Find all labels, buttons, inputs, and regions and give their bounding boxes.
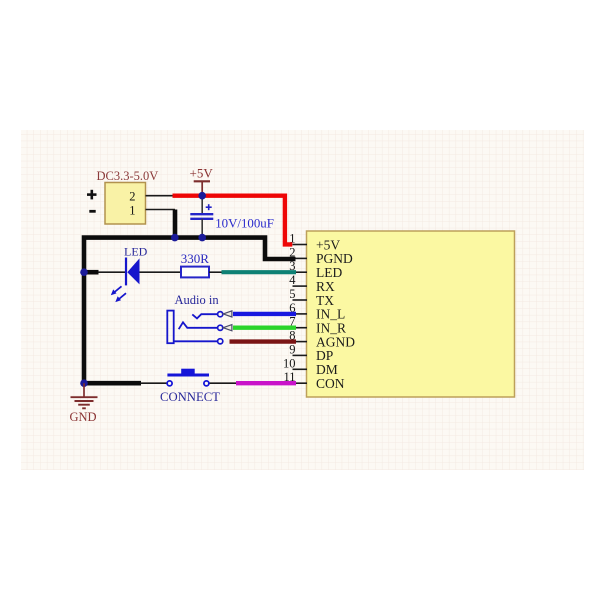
module U1 bbox=[307, 231, 515, 397]
svg-text:PGND: PGND bbox=[316, 251, 353, 266]
capacitor C1 bbox=[201, 196, 203, 215]
LED D1 bbox=[98, 271, 126, 273]
pushbutton S1 bbox=[141, 382, 168, 384]
svg-text:5: 5 bbox=[289, 287, 295, 301]
svg-text:IN_L: IN_L bbox=[316, 307, 345, 322]
svg-text:IN_R: IN_R bbox=[316, 321, 346, 336]
pin numbers 1-11 bbox=[283, 232, 296, 385]
wire LED net (teal) bbox=[222, 270, 297, 274]
pin stubs 1-11 bbox=[293, 245, 308, 384]
svg-text:CONNECT: CONNECT bbox=[160, 390, 220, 404]
svg-text:Audio in: Audio in bbox=[175, 293, 220, 307]
wire IN_L (blue) bbox=[233, 312, 296, 316]
svg-text:10V/100uF: 10V/100uF bbox=[215, 217, 274, 231]
wire DC pin1 bbox=[146, 209, 176, 211]
junction dots bbox=[80, 192, 206, 387]
wire LED branch stub bbox=[84, 270, 99, 275]
svg-text:GND: GND bbox=[70, 410, 97, 424]
svg-text:2: 2 bbox=[129, 190, 135, 204]
svg-text:DP: DP bbox=[316, 348, 333, 363]
plus sign bbox=[87, 190, 97, 200]
svg-text:10: 10 bbox=[283, 356, 296, 370]
svg-text:RX: RX bbox=[316, 279, 335, 294]
svg-text:LED: LED bbox=[316, 265, 342, 280]
svg-text:330R: 330R bbox=[181, 251, 210, 266]
sheet background bbox=[21, 130, 584, 470]
wire resistor to LED net bbox=[209, 271, 224, 273]
wire CON net (magenta) bbox=[236, 381, 296, 385]
wire DC pin1 drop bbox=[173, 210, 178, 240]
wire DC pin2 bbox=[146, 195, 177, 197]
wire GND bus (thick black) bbox=[84, 238, 296, 384]
LED arrows bbox=[111, 286, 126, 302]
wire IN_R (green) bbox=[233, 326, 296, 330]
resistor R1 bbox=[181, 267, 209, 278]
arrowhead IN_R bbox=[223, 325, 232, 331]
svg-text:AGND: AGND bbox=[316, 334, 355, 349]
svg-text:9: 9 bbox=[289, 342, 295, 356]
svg-text:+5V: +5V bbox=[316, 237, 340, 252]
wire bottom branch stub bbox=[84, 381, 141, 386]
arrowhead IN_L bbox=[223, 311, 232, 317]
svg-text:DC3.3-5.0V: DC3.3-5.0V bbox=[97, 169, 159, 183]
ground bbox=[71, 383, 98, 408]
svg-text:DM: DM bbox=[316, 362, 338, 377]
svg-text:+5V: +5V bbox=[190, 166, 214, 181]
wire AGND (dark red) bbox=[230, 339, 297, 343]
svg-text:4: 4 bbox=[289, 273, 296, 287]
svg-text:LED: LED bbox=[124, 245, 148, 259]
power +5V symbol bbox=[194, 181, 210, 195]
svg-text:CON: CON bbox=[316, 376, 345, 391]
DC connector J1 bbox=[105, 183, 146, 225]
svg-text:1: 1 bbox=[129, 203, 135, 217]
audio jack J2 bbox=[167, 311, 217, 344]
pin labels bbox=[316, 237, 355, 391]
minus sign bbox=[89, 210, 95, 213]
wire +5V net (red) bbox=[173, 196, 293, 245]
svg-text:TX: TX bbox=[316, 293, 334, 308]
